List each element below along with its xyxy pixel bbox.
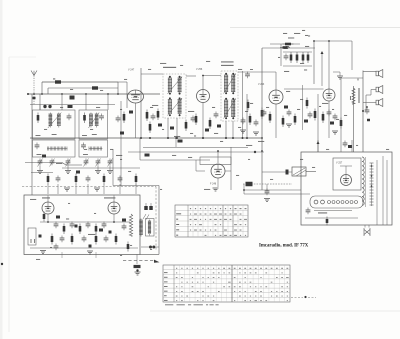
svg-text:V 257: V 257 — [336, 162, 343, 165]
svg-text:V 247: V 247 — [128, 69, 135, 72]
svg-text:V 256: V 256 — [196, 68, 203, 71]
svg-text:M: M — [357, 79, 359, 82]
svg-text:V 263: V 263 — [258, 83, 265, 86]
svg-text:F 248: F 248 — [210, 183, 217, 186]
svg-text:Imcaradio, mod. IF 77X: Imcaradio, mod. IF 77X — [259, 243, 309, 248]
